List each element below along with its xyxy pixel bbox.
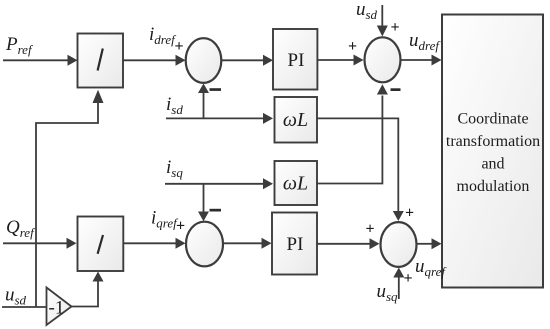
minus sign at S3 top input	[210, 209, 222, 212]
label i_dref	[149, 24, 177, 47]
svg-text:udref: udref	[409, 30, 441, 53]
summing junction S3	[186, 222, 223, 267]
label u_sd (top)	[356, 0, 378, 22]
svg-text:Coordinate: Coordinate	[457, 111, 528, 128]
svg-text:Qref: Qref	[6, 217, 36, 240]
svg-text:usq: usq	[377, 281, 399, 304]
wire wL2 output to S2 bottom (cross-coupling)	[317, 84, 388, 183]
label u_sd (bottom)	[5, 285, 27, 308]
svg-text:+: +	[174, 38, 183, 55]
plus sign at S4 left input	[365, 221, 374, 238]
wire u_sd input to -1 gain	[2, 306, 47, 308]
wire -1 gain to divider2 denominator	[72, 272, 104, 307]
wire PI2 to sum S4	[317, 238, 380, 249]
gain block wL1	[275, 97, 318, 143]
svg-text:and: and	[481, 156, 504, 173]
svg-text:Pref: Pref	[5, 34, 34, 57]
svg-text:+: +	[365, 221, 374, 238]
summing junction S4	[381, 222, 417, 267]
wire i_sd branch up to S1 minus input	[198, 84, 209, 119]
svg-text:isd: isd	[166, 94, 183, 117]
wire S1 to PI1	[221, 55, 273, 66]
PI controller PI2	[272, 213, 317, 275]
plus sign at S4 top input	[405, 205, 414, 222]
svg-text:+: +	[403, 270, 412, 287]
plus sign at S2 top input	[390, 19, 399, 36]
svg-text:+: +	[390, 19, 399, 36]
wire S3 to PI2	[223, 238, 272, 249]
wire u_sd branch up to divider1 denominator	[36, 90, 104, 307]
svg-text:+: +	[348, 38, 357, 55]
divider block /1	[78, 34, 124, 88]
svg-text:+: +	[405, 205, 414, 222]
wire PI1 to sum S2	[317, 55, 363, 66]
PI controller PI1	[273, 29, 317, 90]
label i_sq	[166, 157, 183, 180]
wire Q_ref input	[3, 238, 77, 249]
svg-text:transformation: transformation	[446, 133, 540, 150]
svg-text:-1: -1	[49, 298, 65, 319]
wire P_ref input	[3, 55, 78, 66]
svg-text:ωL: ωL	[283, 173, 308, 195]
label i_qref	[151, 208, 179, 231]
svg-text:modulation: modulation	[457, 178, 530, 195]
svg-text:iqref: iqref	[151, 208, 179, 231]
plus sign at S2 left input	[348, 38, 357, 55]
summing junction S2	[365, 37, 401, 82]
wire i_sd input to wL1	[166, 113, 273, 124]
minus sign at S1 bottom input	[210, 88, 222, 91]
gain block wL2	[275, 161, 318, 205]
svg-text:idref: idref	[149, 24, 177, 47]
minus sign at S2 bottom input	[391, 88, 401, 91]
svg-text:isq: isq	[166, 157, 183, 180]
label P_ref	[5, 34, 34, 57]
label u_dref	[409, 30, 441, 53]
label i_sd	[166, 94, 183, 117]
summing junction S1	[186, 38, 222, 83]
svg-text:usd: usd	[356, 0, 378, 22]
coordinate transformation and modulation block	[442, 15, 543, 288]
label u_qref	[415, 256, 447, 279]
svg-text:+: +	[176, 218, 185, 235]
wire divider2 to sum S3	[123, 238, 186, 249]
wire S2 to coordinate block (u_dref)	[401, 55, 442, 66]
label Q_ref	[6, 217, 36, 240]
wire divider1 to sum S1	[123, 55, 186, 66]
label u_sq	[377, 281, 399, 304]
plus sign at S4 bottom input	[403, 270, 412, 287]
plus sign at S1 left input	[174, 38, 183, 55]
wire i_sq branch down to S3 minus input	[198, 184, 209, 222]
divider block /2	[78, 217, 124, 272]
wire u_sd down into S2	[377, 5, 388, 37]
wire S4 to coordinate block (u_qref)	[417, 238, 442, 249]
svg-text:ωL: ωL	[283, 109, 308, 131]
wire i_sq input to wL2	[165, 178, 273, 189]
wire u_sq up into S4	[393, 268, 404, 300]
gain block -1 (triangle)	[47, 288, 72, 326]
wire wL1 output to S4 top (cross-coupling)	[317, 118, 404, 221]
svg-text:PI: PI	[288, 50, 305, 71]
plus sign at S3 left input	[176, 218, 185, 235]
svg-text:PI: PI	[287, 234, 304, 255]
svg-text:usd: usd	[5, 285, 27, 308]
